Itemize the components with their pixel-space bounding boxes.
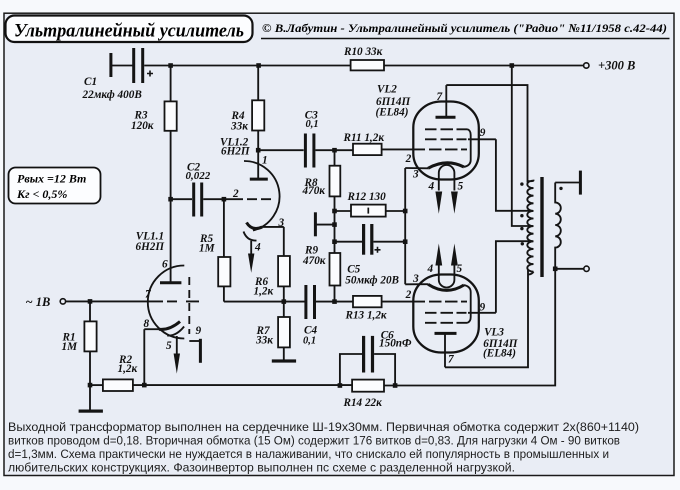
VL3 control grid pin 2 (414, 301, 467, 303)
wire R8 node to C5 node (334, 211, 336, 242)
svg-text:4: 4 (427, 263, 434, 275)
node R8/R12 (332, 209, 337, 214)
VL2 anode pin 7 (445, 85, 447, 116)
wire R5 bottom to VL3 grid line (224, 301, 305, 303)
svg-text:5: 5 (457, 263, 463, 275)
svg-text:~ 1В: ~ 1В (26, 295, 51, 309)
VL1.1 pin 9 shield to chassis (189, 340, 199, 342)
svg-text:50мкф 20В: 50мкф 20В (345, 275, 399, 287)
svg-text:2: 2 (232, 188, 239, 200)
VL2 grid g3 row (425, 128, 468, 130)
VL1.2 anode pin 1 (257, 150, 259, 178)
capacitor C3 (258, 110, 334, 168)
resistor R11 (335, 132, 415, 155)
VL1.1 heater pin 5 with arrow (167, 327, 184, 336)
svg-text:1М: 1М (62, 341, 79, 353)
svg-text:+300 В: +300 В (598, 58, 635, 72)
svg-text:любительских конструкциях. Ф: любительских конструкциях. Фазоинвертор … (8, 461, 515, 475)
resistor R3 (131, 66, 177, 133)
VL1.2 cathode pin 3 (247, 223, 263, 229)
svg-text:1,2к: 1,2к (254, 285, 274, 297)
ground (chassis bar) at secondary top (555, 171, 582, 195)
node secondary bottom/output (553, 267, 558, 272)
resistor R9 (302, 242, 340, 302)
svg-text:3: 3 (412, 169, 419, 181)
node R3/C2/VL1.1 anode (168, 197, 173, 202)
node input/R1 (88, 299, 93, 304)
svg-text:витков проводом d=0,18. Вторич: витков проводом d=0,18. Вторичная обмотк… (8, 434, 620, 448)
VL1.2 heater pin 4 with arrow (244, 232, 257, 241)
VL3 envelope (413, 275, 479, 353)
svg-text:R10 33к: R10 33к (343, 46, 383, 58)
wire VL2/VL3 cathode column (404, 168, 406, 284)
resistor R4 (230, 66, 264, 133)
wire VL3 screen to lower UL tap (496, 241, 533, 313)
svg-text:22мкф 400В: 22мкф 400В (82, 89, 143, 101)
VL3 anode pin 7 (444, 335, 446, 368)
wire bottom rail right (384, 269, 555, 386)
svg-text:Рвых =12 Вт: Рвых =12 Вт (17, 172, 86, 186)
VL2 cathode pin 3 (428, 163, 464, 168)
svg-text:470к: 470к (302, 185, 326, 197)
svg-text:2: 2 (405, 153, 412, 165)
VL2 heater pins 4,5 (439, 165, 455, 191)
resistor R1 (62, 301, 97, 385)
svg-text:VL2: VL2 (377, 84, 397, 96)
resistor R10 (343, 46, 384, 70)
resistor R13 (335, 296, 415, 322)
wire bottom rail left (133, 384, 352, 386)
terminal input ~1V (26, 295, 66, 309)
svg-text:6Н2П: 6Н2П (221, 146, 250, 158)
svg-text:Ультралинейный усилитель: Ультралинейный усилитель (14, 21, 244, 42)
wire VL1.1 cathode down to R2 (143, 329, 145, 385)
resistor R5 (199, 199, 230, 301)
svg-text:150пФ: 150пФ (379, 337, 412, 349)
transformer core (540, 177, 543, 277)
tube VL1.2 (half of 6N2P) (220, 136, 285, 272)
svg-text:5: 5 (166, 340, 172, 352)
svg-text:120к: 120к (131, 120, 154, 132)
VL1.2 envelope arc (244, 161, 280, 231)
ground below R7 (272, 359, 296, 362)
wire VL2 anode to transformer primary top (446, 85, 527, 182)
svg-text:9: 9 (480, 302, 486, 314)
svg-text:33к: 33к (255, 335, 273, 347)
tube VL3 6P14P (EL84) (405, 244, 518, 368)
svg-text:1: 1 (262, 155, 268, 167)
svg-text:0,1: 0,1 (306, 119, 319, 130)
svg-text:Кг < 0,5%: Кг < 0,5% (16, 187, 67, 201)
node C6/R14 right (393, 383, 398, 388)
svg-text:© В.Лабутин - Ультралинейный у: © В.Лабутин - Ультралинейный усилитель (… (262, 21, 667, 35)
node rail/R4 (256, 63, 261, 68)
bottom paragraph (8, 420, 639, 475)
transformer primary winding (527, 181, 533, 272)
annotation box Pout (9, 168, 101, 204)
svg-text:VL3: VL3 (484, 326, 504, 338)
ground (chassis bar) at C1 input (109, 53, 133, 77)
VL3 cathode pin 3 (428, 284, 464, 290)
node R4/VL1.2 anode/C3 (256, 148, 261, 153)
svg-text:3: 3 (412, 273, 419, 285)
wire input to VL1.1 grid (66, 300, 163, 302)
VL1.1 anode pin 6 (170, 281, 172, 284)
capacitor C6 (340, 329, 412, 385)
VL3 g3 tie to cathode (464, 285, 471, 323)
title box (6, 16, 253, 43)
capacitor C4 (303, 285, 335, 346)
winding polarity dots (520, 182, 523, 185)
VL1.1 envelope arc (148, 266, 185, 339)
node C5/cathodes (403, 239, 408, 244)
VL1.1 envelope dashed side (188, 277, 190, 334)
node R12/cathodes (403, 209, 408, 214)
ground (chassis bar) at R8/R9 midpoint (314, 212, 337, 236)
node C4/R9/R13 (332, 299, 337, 304)
svg-text:8: 8 (144, 318, 150, 330)
svg-text:6Н2П: 6Н2П (136, 241, 165, 253)
VL2 envelope (413, 102, 479, 180)
svg-text:9: 9 (196, 325, 202, 337)
svg-text:0,022: 0,022 (186, 170, 211, 182)
svg-text:(EL84): (EL84) (483, 348, 516, 360)
copyright line (261, 21, 670, 39)
VL3 grid g3 row (425, 322, 468, 324)
svg-text:6: 6 (162, 259, 168, 271)
wire +300V top rail (144, 65, 350, 67)
wire VL3 anode to transformer primary bottom (445, 270, 528, 367)
VL1.2 grid pin 2 (dashed) (224, 198, 243, 200)
svg-text:R11 1,2к: R11 1,2к (343, 132, 385, 144)
svg-text:С1: С1 (84, 76, 97, 88)
svg-text:R12 130: R12 130 (347, 191, 387, 203)
svg-text:33к: 33к (230, 121, 248, 133)
capacitor C1 (82, 48, 154, 101)
svg-text:1М: 1М (199, 242, 216, 254)
VL1.1 cathode pin 8 (159, 322, 180, 330)
resistor R6 (254, 227, 290, 302)
capacitor C5 electrolytic (335, 224, 406, 287)
node R6/R7 (282, 299, 287, 304)
svg-text:5: 5 (458, 181, 464, 193)
svg-text:(EL84): (EL84) (376, 106, 409, 118)
svg-text:1,2к: 1,2к (118, 363, 138, 375)
VL2 screen g2 pin 9 (425, 138, 467, 140)
wire VL2 screen to upper UL tap (496, 139, 533, 211)
tube VL1.1 (half of 6N2P) (136, 231, 202, 374)
svg-text:R14 22к: R14 22к (343, 397, 383, 409)
VL3 screen g2 pin 9 (425, 312, 467, 314)
node C5 left (332, 239, 337, 244)
node C2/R5/VL1.2 grid (222, 197, 227, 202)
wire R4 to VL1.2 anode node (257, 131, 259, 151)
transformer secondary winding (555, 183, 561, 269)
wire R3 to C2 node and VL1.1 anode (170, 131, 172, 283)
resistor R8 (302, 150, 341, 211)
node R2/VL1.1 cathode/rail (142, 383, 147, 388)
node C6/R14 left (338, 383, 343, 388)
resistor R12 with power mark (335, 191, 406, 216)
node rail/transformer centre tap (510, 63, 515, 68)
svg-text:4: 4 (254, 242, 261, 254)
svg-text:d=1,3мм. Схема практически не: d=1,3мм. Схема практически не нуждается … (8, 447, 609, 461)
svg-text:4: 4 (428, 181, 435, 193)
svg-text:2: 2 (405, 289, 412, 301)
node R1/R2/ground (88, 383, 93, 388)
capacitor C2 (171, 162, 224, 217)
svg-text:0,1: 0,1 (303, 335, 316, 346)
resistor R7 (255, 302, 290, 360)
ground below R1 (79, 385, 103, 413)
svg-text:Выходной трансформатор выполне: Выходной трансформатор выполнен на серде… (8, 420, 639, 434)
wire +300V rail to primary centre tap (512, 66, 533, 227)
terminal +300 V (584, 58, 636, 72)
terminal output (555, 266, 589, 271)
VL2 control grid pin 2 (414, 148, 467, 150)
VL2 g3 tie to cathode (464, 129, 471, 167)
tube VL2 6P14P (EL84) (376, 84, 496, 214)
node C3/R8/R11 (332, 148, 337, 153)
VL1.1 grid pin 7 (dashed) (167, 300, 199, 302)
resistor R14 (343, 380, 385, 409)
svg-text:470к: 470к (302, 255, 326, 267)
node rail/R3 (168, 63, 173, 68)
VL3 heater pins 4,5 (439, 265, 455, 288)
resistor R2 (90, 354, 137, 391)
svg-text:9: 9 (480, 127, 486, 139)
svg-text:R13 1,2к: R13 1,2к (345, 309, 387, 321)
